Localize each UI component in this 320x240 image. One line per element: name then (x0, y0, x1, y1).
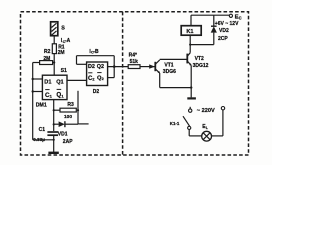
svg-text:VT1: VT1 (164, 62, 173, 68)
resistor R1 (52, 44, 56, 54)
wire sensor to R1 (53, 36, 55, 44)
flip-flop IC-B box U2 (87, 62, 108, 86)
capacitor C1 (47, 132, 58, 140)
flyback diode VD2 (211, 15, 217, 44)
wire R1 to flip-flop S1 input (53, 54, 55, 76)
svg-text:R3: R3 (67, 102, 74, 108)
pin Q1 (56, 79, 63, 85)
label K1-1 (170, 121, 180, 126)
svg-text:R4*: R4* (129, 52, 137, 58)
label VT2 3DG12 (193, 56, 209, 69)
pin C2 clock (88, 76, 95, 82)
diode VD1 (54, 121, 78, 127)
svg-text:D2: D2 (93, 89, 100, 95)
svg-text:+6V ~ 12V: +6V ~ 12V (215, 21, 239, 27)
resistor R3 (54, 108, 77, 112)
wire VD2 anode to relay bottom (190, 44, 214, 46)
emitter row wire (160, 86, 193, 88)
pin Q2 (97, 64, 104, 70)
svg-text:R2: R2 (44, 49, 51, 55)
svg-text:C1: C1 (39, 127, 46, 133)
pin D2 (88, 64, 95, 70)
svg-text:-B: -B (93, 49, 99, 55)
label EL (202, 124, 209, 130)
svg-text:100: 100 (64, 114, 72, 120)
pin D1 (44, 80, 51, 86)
relay coil K1 (181, 26, 201, 36)
svg-text:VT2: VT2 (195, 56, 204, 62)
transistor VT1 (155, 60, 160, 73)
left rail wire (32, 63, 34, 140)
node S1 label (61, 68, 67, 74)
svg-text:2AP: 2AP (63, 139, 73, 145)
svg-text:D2: D2 (88, 64, 95, 70)
wire relay top to supply rail (190, 15, 192, 26)
ground right (187, 97, 196, 99)
wire Q2 output to R4 (108, 65, 129, 68)
pin Q1bar (56, 92, 64, 99)
label 100 (64, 114, 72, 120)
ground left (48, 140, 58, 153)
svg-text:2: 2 (92, 77, 94, 81)
label Ec (235, 15, 242, 21)
label C1 0.33u (33, 127, 45, 142)
label D2 below box (93, 89, 100, 95)
label IC-A (61, 38, 71, 44)
wire lamp to right terminal (212, 110, 223, 136)
wire VT2 emitter down (190, 66, 192, 98)
svg-text:S: S (61, 26, 65, 32)
feedback wire Q2bar to D2 (77, 56, 115, 78)
svg-text:3DG6: 3DG6 (163, 69, 176, 75)
svg-text:2M: 2M (58, 50, 65, 56)
supply rail wire (191, 14, 229, 16)
svg-text:K1-1: K1-1 (170, 121, 180, 126)
svg-text:Q2: Q2 (97, 64, 104, 70)
resistor R4 (128, 65, 140, 69)
label DM1 (36, 102, 47, 108)
lamp EL (202, 131, 212, 141)
label VD2 2CP (218, 28, 229, 42)
label VT1 3DG6 (163, 62, 176, 74)
dashed section divider (122, 12, 124, 155)
svg-text:D1: D1 (44, 80, 51, 86)
resistor R2 (40, 61, 55, 65)
mains terminal right (221, 107, 224, 110)
svg-text:VD2: VD2 (219, 28, 229, 34)
terminal Ec (229, 14, 232, 17)
svg-text:L: L (206, 126, 209, 130)
svg-text:C: C (239, 15, 242, 20)
label R3 (67, 102, 74, 108)
transistor VT2 (187, 53, 191, 66)
label +6V~12V (215, 21, 239, 27)
wire rail bottom to capacitor (33, 139, 55, 141)
svg-text:K1: K1 (186, 29, 193, 35)
wire Q1 to clock of IC-B (67, 79, 87, 81)
label K1 (186, 29, 193, 35)
wire flip-flop bottom pin down (53, 100, 55, 131)
svg-text:Q1: Q1 (56, 79, 63, 85)
wire contact to lamp (189, 130, 202, 136)
label R1 2M (58, 44, 65, 55)
label S (61, 26, 65, 32)
wire VT1 emitter down (159, 73, 161, 88)
svg-text:-A: -A (65, 38, 71, 44)
wire R4 to VT1 base with arrow (140, 64, 155, 68)
dashed enclosure border (21, 12, 249, 155)
svg-text:2CP: 2CP (218, 36, 228, 42)
wire VT2 collector to relay (189, 35, 191, 53)
photoresistor sensor S (51, 22, 58, 36)
pin Q2bar (97, 76, 104, 82)
relay contact K1-1 (183, 116, 191, 129)
flip-flop IC-A box U1 (42, 75, 67, 99)
svg-text:DM1: DM1 (36, 102, 47, 108)
label ~220V (197, 108, 215, 114)
svg-text:~ 220V: ~ 220V (197, 108, 215, 114)
svg-text:2: 2 (102, 77, 104, 81)
label R4* 51k (129, 52, 139, 65)
wire rail to D1 (32, 78, 43, 80)
mains terminal left (189, 107, 192, 113)
svg-text:1: 1 (61, 93, 64, 98)
svg-text:3DG12: 3DG12 (193, 63, 209, 69)
wire R2 to left rail (33, 62, 40, 64)
svg-text:1: 1 (50, 94, 53, 99)
label R2 2M (43, 49, 50, 62)
label IC-B (89, 49, 99, 55)
wire VT1 collector to VT2 base (160, 58, 187, 60)
svg-text:VD1: VD1 (58, 132, 68, 138)
wire rail to C1 clock pin (32, 90, 43, 92)
wire R3 right to diode row (77, 91, 89, 124)
label VD1 2AP (58, 132, 73, 146)
svg-text:S1: S1 (61, 68, 67, 74)
pin C1 clock (45, 92, 53, 99)
